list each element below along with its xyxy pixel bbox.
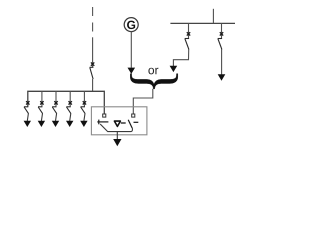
switch feeder 4 [66, 107, 71, 114]
wire: incoming feed solid segment [92, 37, 94, 67]
switch feeder 5 [81, 107, 86, 114]
feeder drop 5 [83, 91, 85, 107]
switch HV feeder A [185, 39, 189, 50]
busbar LV main (left) [28, 91, 105, 114]
switch HV feeder B [218, 39, 222, 50]
arrow: HV load B [218, 74, 226, 81]
interlock dash [121, 122, 126, 124]
wire: HV feeder A to transfer arrow [173, 50, 188, 67]
switch feeder 1 [24, 107, 29, 114]
breaker X feeder 4 [69, 101, 72, 104]
breaker X incoming [91, 62, 94, 65]
generator G [124, 18, 138, 32]
node: HV supply stub [212, 9, 214, 24]
interlock triangle [114, 121, 120, 126]
common rail of transfer switch [100, 124, 132, 132]
breaker X feeder 1 [26, 101, 29, 104]
wire: HV feeder A drop [188, 23, 190, 38]
arrow: HV option [170, 66, 178, 72]
node: utility incoming line (dashed) [92, 7, 94, 33]
feeder drop 2 [41, 91, 43, 107]
breaker X feeder 2 [40, 101, 43, 104]
wire: incoming to busbar [92, 79, 94, 91]
terminal square left [103, 114, 106, 117]
arrow: secured load output [113, 139, 121, 146]
wire: HV feeder B down [221, 50, 223, 75]
box: automatic transfer switch [91, 107, 146, 135]
wire: brace output to transfer switch [133, 89, 153, 114]
load arrow feeder 3 [52, 113, 59, 127]
load arrow feeder 5 [80, 113, 87, 127]
brace: alternative sources [130, 74, 178, 89]
wire: transfer switch output [116, 132, 118, 140]
busbar HV (right) [170, 22, 235, 24]
breaker X HV feeder B [220, 32, 223, 35]
load arrow feeder 2 [38, 113, 45, 127]
load arrow feeder 4 [66, 113, 73, 127]
wire: generator to arrow [130, 31, 132, 67]
breaker X HV feeder A [187, 32, 190, 35]
wire: HV feeder B drop [221, 23, 223, 38]
breaker X feeder 5 [83, 101, 86, 104]
load arrow feeder 1 [24, 113, 31, 127]
switch feeder 3 [52, 107, 57, 114]
disconnector switch incoming [90, 67, 94, 79]
feeder drop 3 [55, 91, 57, 107]
contact closed (left) [97, 120, 108, 125]
terminal square right [132, 114, 135, 117]
label: or [148, 68, 154, 75]
arrow: generator option [128, 68, 136, 74]
feeder drop 4 [69, 91, 71, 107]
contact open (right) [128, 120, 138, 128]
switch feeder 2 [38, 107, 43, 114]
breaker X feeder 3 [54, 101, 57, 104]
